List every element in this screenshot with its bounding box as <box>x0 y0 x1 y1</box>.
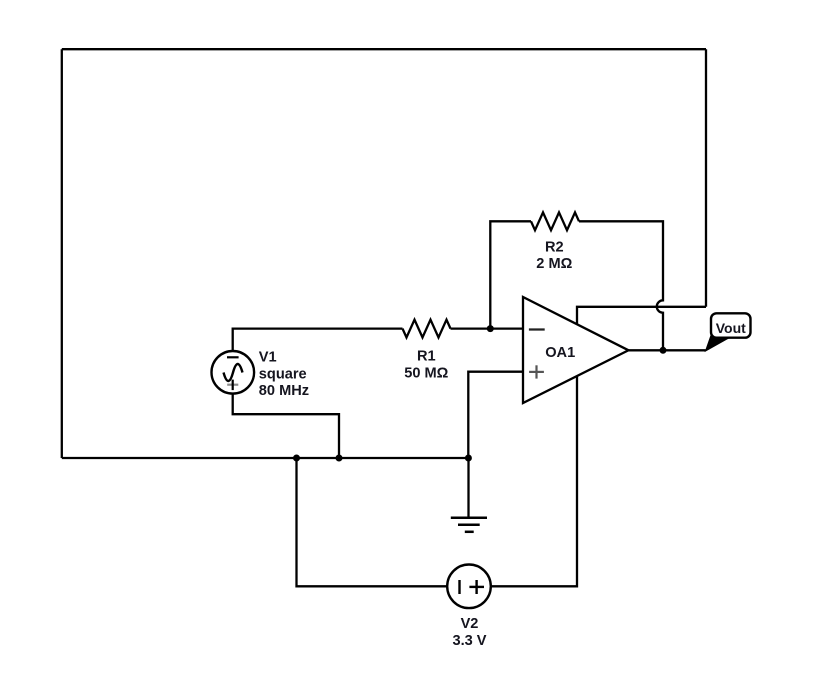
wire op-amp top supply pin <box>577 307 706 326</box>
svg-text:80 MHz: 80 MHz <box>259 383 309 399</box>
junction <box>293 455 300 462</box>
label V1 "V1 square 80 MHz" <box>259 350 309 400</box>
svg-text:50 MΩ: 50 MΩ <box>404 365 448 381</box>
svg-text:V1: V1 <box>259 350 277 366</box>
resistor R2 <box>531 212 579 230</box>
wire bottom rail <box>62 457 469 459</box>
label R1 "50 MΩ" <box>404 348 448 381</box>
svg-text:OA1: OA1 <box>545 345 575 361</box>
junction <box>487 325 494 332</box>
wire left rail <box>61 49 63 458</box>
net label Vout <box>706 313 751 351</box>
junction <box>465 455 472 462</box>
wire V2 left branch <box>297 458 448 586</box>
wire op-amp non-inverting input <box>468 372 523 458</box>
wire V2 right branch to op-amp bottom pin <box>491 375 578 587</box>
wire V1 bottom branch <box>233 393 339 459</box>
svg-text:square: square <box>259 366 307 382</box>
svg-text:2 MΩ: 2 MΩ <box>536 256 572 272</box>
op-amp OA1 <box>523 297 629 403</box>
svg-text:Vout: Vout <box>716 320 746 336</box>
wire op-amp output <box>629 349 706 351</box>
svg-text:V2: V2 <box>461 616 479 632</box>
resistor R1 <box>403 320 451 338</box>
junction <box>336 455 343 462</box>
label R2 "2 MΩ" <box>536 239 572 272</box>
wire feedback right branch with hop <box>579 221 663 350</box>
wire right rail <box>705 49 707 307</box>
wire V1 top to R1 <box>233 329 403 352</box>
svg-text:R2: R2 <box>545 239 564 255</box>
svg-text:R1: R1 <box>417 348 436 364</box>
label V2 "V2 3.3 V" <box>452 616 486 649</box>
voltage source V2 <box>447 565 491 609</box>
ground <box>451 458 487 532</box>
voltage source V1 <box>212 351 255 394</box>
wire top rail <box>62 48 706 50</box>
junction <box>660 347 667 354</box>
svg-text:3.3 V: 3.3 V <box>452 633 486 649</box>
wire R1 to op-amp inverting input <box>451 327 524 329</box>
wire feedback left branch <box>490 221 531 328</box>
